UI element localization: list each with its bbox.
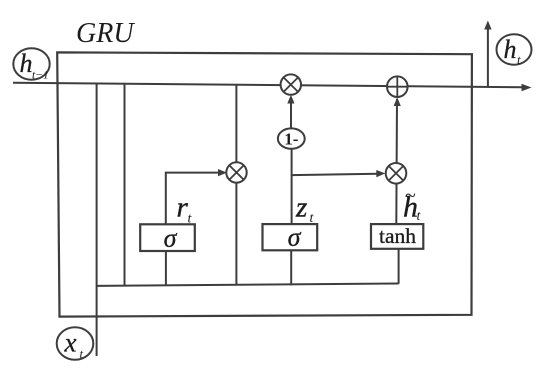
wire below sigma z to bottom bus: [290, 250, 292, 285]
wire horizontal arrow from junction to X2: [292, 174, 378, 175]
gate box sigma r: [140, 224, 195, 253]
multiplier X1: [226, 162, 246, 182]
svg-text:GRU: GRU: [76, 18, 135, 49]
wire second vertical bus line: [124, 84, 126, 286]
svg-text:t: t: [80, 346, 84, 361]
svg-text:σ: σ: [288, 223, 302, 252]
arrowhead h_t up: [484, 21, 491, 30]
svg-text:~: ~: [405, 185, 416, 207]
svg-text:h: h: [504, 35, 517, 64]
svg-text:tanh: tanh: [379, 224, 416, 248]
adder plus: [387, 76, 408, 97]
svg-text:t−1: t−1: [32, 70, 49, 82]
wire h_t up arrow: [487, 27, 489, 87]
svg-text:h: h: [20, 49, 33, 78]
svg-text:1-: 1-: [284, 130, 299, 149]
arrowhead into X1: [218, 169, 227, 176]
node h_{t-1}: [13, 48, 49, 81]
arrowhead into plus: [394, 97, 401, 106]
arrowhead into X2: [376, 170, 385, 177]
wire vertical through multiplier X1: [235, 85, 237, 285]
arrowhead main h-line right: [522, 84, 532, 92]
arrowhead into X3: [287, 95, 294, 104]
label r_t: [177, 192, 193, 227]
multiplier X2: [386, 163, 407, 184]
node x_t: [57, 327, 94, 361]
gate box sigma z: [263, 223, 318, 252]
wire below sigma r to bottom bus: [165, 251, 167, 285]
label z_t: [295, 192, 315, 227]
wire vertical from plus through X2 to tanh: [395, 99, 398, 224]
svg-text:z: z: [295, 192, 307, 224]
node h_t: [497, 34, 532, 67]
node one-minus: [278, 128, 305, 148]
gate box tanh: [371, 224, 423, 249]
wire from one-minus up to X3: [290, 99, 292, 131]
wire elbow from sigma r to X1: [166, 173, 220, 225]
multiplier X3: [281, 74, 301, 94]
wire main h-line: [13, 83, 523, 88]
wire x_t vertical line: [96, 83, 98, 356]
wire bottom bus: [97, 284, 399, 286]
svg-text:x: x: [64, 328, 77, 358]
svg-text:t: t: [417, 209, 422, 224]
wire from sigma z up to one-minus with junction: [291, 148, 293, 225]
wire below tanh to bottom bus: [398, 249, 400, 284]
outer box GRU cell: [57, 52, 472, 316]
label h-tilde_t: [403, 185, 422, 224]
svg-text:t: t: [517, 52, 521, 67]
svg-text:σ: σ: [164, 224, 178, 253]
